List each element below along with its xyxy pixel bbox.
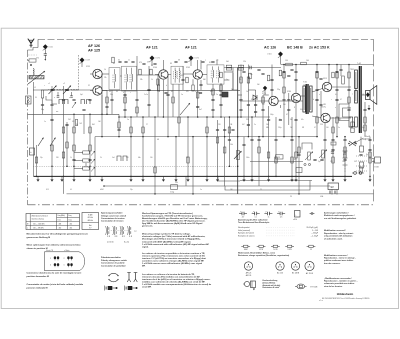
svg-text:S12: S12: [210, 91, 213, 93]
ground h9: [294, 176, 297, 181]
switch contact arrow b: [91, 159, 95, 164]
svg-text:20p: 20p: [110, 94, 113, 96]
ground speaker return: [367, 105, 370, 110]
switch contact pair D: [87, 100, 91, 105]
polarity arcs symbol: [108, 273, 118, 281]
variable capacitor CA: [49, 86, 57, 95]
svg-text:1n: 1n: [44, 121, 46, 123]
svg-text:medidas con voltimetro de: medidas con voltimetro de valvulas (AL/D…: [142, 280, 206, 283]
oscillator coil box S2: [122, 66, 137, 91]
wire v8: [94, 137, 96, 177]
table IF frequencies T2: [82, 213, 99, 230]
svg-text:510 — 1620 kHz: 510 — 1620 kHz: [33, 223, 45, 225]
wire v53: [316, 65, 318, 137]
svg-text:33k: 33k: [251, 99, 254, 101]
coupling capacitor C2: [44, 54, 47, 55]
wire v18: [154, 117, 156, 194]
wire v13: [124, 90, 126, 117]
wire v15: [136, 56, 138, 117]
svg-text:1k: 1k: [70, 157, 72, 159]
svg-text:tion des sources.: tion des sources.: [324, 262, 341, 265]
svg-text:468: 468: [59, 223, 62, 225]
wire ground bus (bold): [34, 175, 353, 177]
wire v40: [251, 117, 253, 176]
volume potentiometer: [237, 151, 240, 160]
svg-text:5n: 5n: [338, 127, 340, 129]
transistor V6 BC148B driver: [291, 93, 300, 102]
capacitor c19: [247, 124, 250, 125]
svg-text:S10: S10: [181, 75, 184, 77]
wire gang link horizontal (dashed): [48, 89, 79, 91]
svg-text:1k2: 1k2: [80, 123, 83, 125]
ground g1: [36, 176, 39, 181]
wire v52: [298, 137, 300, 194]
svg-text:68: 68: [157, 139, 159, 141]
svg-text:Anderungen vorbehalten !: Anderungen vorbehalten !: [324, 211, 349, 214]
svg-text:tensions C.C.(a0.75%) au tr: tensions C.C.(a0.75%) au transistor racc…: [142, 257, 206, 260]
measuring point M5: [278, 52, 283, 58]
svg-text:b: b: [123, 92, 124, 94]
pinout circle AC153K: [305, 261, 314, 274]
capacitor c18: [239, 99, 242, 100]
resistor r43: [118, 122, 120, 128]
svg-text:S12: S12: [209, 62, 212, 64]
ground h4: [162, 176, 165, 181]
svg-text:Measuring voltage symbol is: Measuring voltage symbol is TR battery v…: [142, 233, 191, 236]
extra capacitors set: [41, 69, 372, 155]
svg-text:Les valeurs de tension res: Les valeurs de tension respectibles a la…: [142, 252, 205, 255]
svg-text:2: 2: [64, 258, 65, 260]
svg-text:cion de las fuentes.: cion de las fuentes.: [324, 285, 343, 288]
transistor V5 AC126 AF preamp: [269, 96, 278, 105]
svg-text:4n7: 4n7: [199, 109, 202, 111]
svg-text:Spg 948 Hz auf Aussenantenn: Spg 948 Hz auf Aussenantenne (ApM) 60mA …: [142, 222, 203, 225]
svg-text:1n: 1n: [268, 216, 270, 218]
resistor R30 supply: [286, 63, 293, 66]
svg-text:electronic voltages (no.7 kH: electronic voltages (no.7 kHz) measured …: [142, 235, 206, 238]
wire rail y180 (right): [240, 180, 312, 182]
svg-text:Freq.: Freq.: [68, 215, 72, 217]
svg-text:100μ: 100μ: [362, 139, 366, 141]
svg-text:2μ2: 2μ2: [318, 161, 321, 163]
svg-text:DCvoltages (1x0.75%) at tra: DCvoltages (1x0.75%) at transistor relat…: [142, 238, 201, 241]
svg-text:Nennkapazitat: Nennkapazitat: [238, 226, 250, 229]
wire v3: [51, 86, 53, 176]
wire v19: [157, 74, 159, 90]
svg-text:e: e: [335, 107, 336, 109]
ground h2: [88, 176, 91, 181]
svg-text:25: 25: [260, 189, 262, 191]
output transformer T4: [349, 62, 361, 133]
wire v21: [167, 74, 169, 137]
svg-text:5k6: 5k6: [257, 84, 260, 86]
svg-text:U 201: U 201: [267, 54, 271, 56]
svg-text:o: o: [69, 97, 70, 99]
capacitor c12: [123, 94, 126, 95]
svg-text:posicion indicada M: posicion indicada M: [27, 287, 48, 289]
headphone switch X1: [348, 141, 357, 146]
resistor column R10: [83, 151, 90, 154]
svg-text:100: 100: [306, 60, 309, 62]
svg-text:1: 1: [64, 265, 65, 267]
svg-text:25μ: 25μ: [130, 189, 133, 191]
arrow ferrite tuning: [28, 71, 45, 84]
wire tone line: [250, 161, 303, 163]
svg-text:publiee seulement avec indi: publiee seulement avec indica-: [324, 259, 354, 262]
svg-text:50k: 50k: [175, 182, 178, 184]
svg-text:Widerstande, Bruchteil(1) 1: Widerstande, Bruchteil(1) 1 Belast., wen…: [238, 251, 276, 254]
svg-text:2k: 2k: [100, 157, 102, 159]
band switch arrow S1b: [50, 138, 56, 147]
ground g2: [50, 176, 53, 181]
resistor R31 supply: [301, 62, 307, 65]
ground g11: [368, 176, 371, 181]
trimmer C4: [70, 96, 73, 97]
svg-text:1n: 1n: [127, 119, 129, 121]
svg-text:Wave splints (pan from all: Wave splints (pan from allantry side) me…: [27, 243, 82, 246]
resistor r36: [316, 117, 318, 123]
svg-text:Voltage conversion switch: Voltage conversion switch: [101, 214, 127, 217]
extra value labels: [35, 74, 368, 198]
svg-text:Commutateur de tension: Commutateur de tension: [101, 217, 125, 220]
resistor R40: [157, 85, 159, 91]
svg-text:5—10F: 5—10F: [312, 230, 319, 232]
stepped wire: [46, 96, 57, 104]
variable capacitor CB: [63, 86, 71, 95]
svg-text:L1: L1: [34, 87, 36, 89]
svg-text:6k8: 6k8: [203, 79, 206, 81]
switch contact pair B: [65, 100, 69, 105]
resistor column R11: [83, 159, 90, 162]
wire M3 stem: [151, 61, 153, 67]
svg-text:gemessen.: gemessen.: [142, 226, 153, 228]
svg-text:only permitted with indicat: only permitted with indication: [324, 235, 353, 238]
resistor r27: [178, 117, 180, 123]
wire v50: [295, 65, 297, 94]
battery polarity glyph 1: [105, 286, 118, 291]
switch contact arrow a: [91, 151, 95, 156]
wire AGC rail y90: [102, 89, 240, 91]
trimmer tool glyph: [295, 284, 307, 289]
svg-text:1/8 W: 1/8 W: [288, 249, 293, 251]
svg-text:AF 121: AF 121: [146, 46, 158, 50]
svg-text:f min: f min: [58, 220, 61, 222]
svg-text:4μ7: 4μ7: [362, 127, 365, 129]
svg-text:2k2: 2k2: [68, 119, 71, 121]
wire v51: [295, 103, 297, 177]
svg-text:tone: tone: [343, 153, 346, 156]
wire rail y136: [95, 136, 318, 138]
wire detector rail: [224, 67, 281, 69]
wire bus y117: [119, 116, 270, 118]
svg-text:1k: 1k: [104, 69, 106, 71]
svg-text:22k: 22k: [104, 77, 107, 79]
svg-text:MF.: MF.: [142, 266, 146, 268]
svg-text:330: 330: [186, 157, 189, 159]
wire v11: [111, 90, 113, 114]
capacitor C47 det: [250, 66, 251, 69]
tone contact circle 2: [308, 163, 310, 165]
svg-text:0.1: 0.1: [339, 119, 341, 121]
connector socket: [26, 96, 32, 104]
wire v47: [283, 65, 285, 137]
upper band capacitors: [118, 61, 214, 64]
svg-text:Commutateur de polarite: Commutateur de polarite: [101, 262, 126, 265]
wire e1: [158, 79, 160, 85]
wire v54: [320, 91, 322, 113]
resistor R2: [41, 90, 43, 98]
wire v5: [66, 122, 68, 166]
wire v33: [220, 83, 222, 117]
svg-text:Polarity changeover switch: Polarity changeover switch: [101, 259, 128, 262]
svg-text:AC 153 K: AC 153 K: [306, 272, 314, 275]
svg-text:[ 4 mm: [ 4 mm: [107, 242, 114, 244]
svg-text:9V: 9V: [331, 185, 334, 189]
wire v42: [258, 137, 260, 186]
wire v39: [247, 65, 249, 137]
wire pot drop: [185, 176, 187, 186]
wire v36: [232, 68, 234, 91]
svg-text:1k8: 1k8: [98, 121, 101, 123]
svg-text:1k: 1k: [151, 79, 153, 81]
wire boundary corner: [37, 39, 39, 47]
capacitor c17: [219, 94, 222, 95]
svg-text:12k: 12k: [216, 60, 219, 62]
svg-text:452: 452: [70, 228, 73, 230]
jack box small: [296, 168, 302, 173]
capacitor c15: [196, 106, 199, 107]
pinout circle AC126: [276, 262, 284, 275]
svg-text:solamente permitida con ind: solamente permitida con indica-: [324, 282, 355, 285]
svg-text:27: 27: [146, 124, 148, 126]
svg-text:V160: V160: [153, 67, 157, 69]
wire antenna input stem: [44, 49, 46, 53]
schematic boundary right (dashed): [373, 39, 375, 203]
wire AM bus y114: [28, 113, 120, 115]
svg-text:U 170: U 170: [156, 58, 160, 60]
resistor r23: [130, 127, 132, 133]
contact bank (dashed): [356, 155, 367, 157]
schematic boundary top (dashed): [38, 38, 374, 40]
capacitor c20: [254, 104, 257, 105]
switch contact pair C: [81, 100, 85, 105]
capacitor c30: [331, 149, 334, 150]
resistor R33 det: [226, 65, 232, 67]
tone pot 2: [322, 150, 325, 158]
resistor r38: [336, 117, 338, 123]
ground g10: [323, 176, 326, 181]
svg-text:Valor (nominal): Valor (nominal): [238, 230, 250, 232]
resistor R14: [75, 120, 77, 126]
capacitor C45: [164, 92, 167, 93]
svg-text:25μ: 25μ: [350, 127, 353, 129]
resistor r26: [172, 97, 174, 103]
transistor V1 AF126 RF amp: [93, 69, 102, 78]
capacitor c13: [147, 89, 150, 90]
ground h7: [242, 176, 245, 181]
svg-text:6+4 ]: 6+4 ]: [124, 242, 129, 244]
ground h10: [331, 176, 334, 181]
stub r10: [74, 152, 83, 154]
measuring point M4: [188, 56, 193, 62]
svg-text:150: 150: [330, 161, 333, 163]
svg-text:1 mV/1kHz medido con acompa: 1 mV/1kHz medido con acompanamiento (AL/…: [142, 283, 212, 286]
svg-text:nur mit Suchtmengeles gedac: nur mit Suchtmengeles gedachtet: [324, 217, 356, 220]
external speaker jack: [375, 157, 381, 163]
svg-text:68k: 68k: [266, 127, 269, 129]
wire tuning line: [33, 89, 93, 91]
resistor r29: [206, 127, 208, 133]
svg-text:100n: 100n: [246, 157, 250, 159]
ground g4: [100, 176, 103, 181]
voltage switch symbol 2: [113, 226, 118, 237]
wire v7: [89, 114, 91, 176]
svg-text:—200μF: —200μF: [311, 233, 319, 235]
svg-text:5k6: 5k6: [226, 61, 229, 63]
svg-text:39-51μF (μμF): 39-51μF (μμF): [306, 227, 318, 229]
tone pot 1: [308, 152, 311, 160]
svg-text:T: T: [352, 94, 353, 96]
svg-text:1: 1: [50, 258, 51, 260]
svg-text:AF 121: AF 121: [185, 46, 197, 50]
stub r12: [74, 168, 83, 170]
band switch arrow S1a: [38, 138, 44, 147]
capacitor c26: [347, 89, 350, 90]
IF transformer T2: [207, 65, 224, 84]
svg-text:shown in position M: shown in position M: [27, 247, 48, 250]
resistor r37: [332, 127, 334, 133]
svg-text:tensions ayant (no.7%) a t: tensions ayant (no.7%) a transistors ave…: [142, 254, 206, 257]
svg-text:senal MF.: senal MF.: [142, 287, 152, 289]
wire v10: [106, 90, 108, 114]
transistor V7 AC153K output upper: [322, 82, 331, 91]
svg-text:1k: 1k: [128, 60, 130, 62]
electrolytic C40: [360, 146, 364, 152]
svg-text:Resistentes de cinta: Resistentes de cinta: [263, 286, 279, 289]
svg-text:460: 460: [59, 228, 62, 230]
wire v57: [332, 117, 334, 176]
svg-text:V319: V319: [323, 78, 327, 80]
wire v26: [187, 117, 189, 176]
svg-text:Hildesheim: Hildesheim: [337, 292, 354, 296]
elco symbol row1: [295, 211, 301, 218]
svg-text:S15: S15: [46, 189, 49, 191]
svg-text:Tr 62: Tr 62: [357, 62, 361, 65]
wire v62: [360, 137, 362, 144]
transistor pinout box: [44, 249, 84, 271]
ferrite rod antenna coil: [29, 69, 44, 79]
svg-text:2n: 2n: [144, 94, 146, 96]
svg-text:Conmutador de ondas (visto: Conmutador de ondas (visto del lado sold…: [27, 283, 84, 286]
ground g7: [216, 176, 219, 181]
svg-text:S9: S9: [171, 91, 173, 93]
svg-text:5: 5: [50, 265, 51, 267]
svg-text:U 139: U 139: [86, 60, 90, 62]
wire v14: [130, 117, 132, 176]
electrolytic C5: [30, 148, 35, 155]
capacitor c22: [287, 99, 290, 100]
svg-text:1/4 W: 1/4 W: [273, 249, 278, 251]
upper band labels: [118, 60, 219, 64]
svg-text:5k log: 5k log: [170, 192, 174, 194]
wire v25: [182, 66, 184, 90]
wire v55: [324, 123, 326, 177]
capacitor c28: [50, 119, 53, 120]
measuring point M2: [79, 58, 84, 64]
svg-text:Reproduccion - tambien en p: Reproduccion - tambien en partes -: [324, 280, 358, 283]
battery polarity glyph 2: [125, 286, 138, 291]
svg-text:Messbereiche (nur fur Umsch: Messbereiche (nur fur Umschaltgerate gee…: [27, 233, 89, 236]
wire corner to left border: [28, 48, 39, 51]
tone network caps: [313, 159, 316, 160]
svg-text:Tenn Einheitswert New Elect: Tenn Einheitswert New Electrolytic: [238, 221, 269, 224]
svg-text:den Vor-Bereichsweiter (AL/N: den Vor-Bereichsweiter (AL/NORM.) ohne H…: [142, 220, 206, 223]
voltage switch symbol 4: [127, 226, 132, 237]
svg-text:hochohmmessungen, 1%/1GHz au: hochohmmessungen, 1%/1GHz auf HF-Generat…: [142, 214, 203, 217]
wire v16: [142, 117, 144, 176]
wire v34: [224, 117, 226, 186]
svg-text:TR62: TR62: [350, 69, 354, 71]
electrolytic C48: [222, 92, 228, 97]
wire AGC line (dotted): [34, 165, 239, 167]
wire v30: [206, 117, 208, 176]
resistor r22: [89, 127, 91, 133]
svg-text:160: 160: [230, 189, 233, 191]
svg-text:V180: V180: [287, 91, 291, 93]
svg-text:560: 560: [283, 104, 286, 106]
svg-text:0.5: 0.5: [335, 94, 337, 96]
svg-text:0.1: 0.1: [70, 189, 72, 191]
svg-text:S2: S2: [113, 63, 115, 65]
svg-text:9 V: 9 V: [89, 228, 91, 230]
svg-text:B 584: B 584: [375, 167, 379, 169]
svg-text:V2: V2: [88, 85, 90, 87]
svg-text:U 175: U 175: [195, 58, 199, 60]
transistor V2 AF125 mixer: [93, 86, 102, 95]
svg-text:signal.: signal.: [142, 246, 149, 248]
svg-text:S9: S9: [170, 63, 172, 65]
wire v28: [197, 80, 199, 117]
wire v45: [271, 65, 273, 98]
switch contact pair A: [59, 100, 63, 105]
svg-text:68n: 68n: [138, 157, 141, 159]
resistor r39: [344, 147, 346, 153]
transistor V8 AC153K output lower: [321, 113, 330, 122]
svg-text:S3: S3: [109, 91, 111, 93]
svg-text:12k: 12k: [243, 61, 246, 63]
driver transformer T3: [303, 81, 312, 115]
wire step-down 1: [218, 176, 240, 181]
svg-text:c2: c2: [63, 83, 65, 85]
capacitor c23: [294, 79, 297, 80]
wire v38: [243, 137, 245, 177]
svg-text:22n: 22n: [280, 216, 283, 218]
wire v22: [172, 84, 174, 117]
svg-text:Ejemplos del valenti: Ejemplos del valenti: [238, 232, 255, 235]
wire v44: [268, 106, 270, 176]
wire v20: [162, 80, 164, 117]
wire v2: [36, 151, 38, 176]
wire v41: [255, 90, 257, 117]
svg-text:25μ: 25μ: [40, 157, 43, 159]
svg-text:0R5: 0R5: [323, 104, 326, 106]
wire M4 stem: [190, 61, 192, 67]
resistor column R12: [83, 167, 90, 170]
svg-text:47: 47: [314, 127, 316, 129]
svg-text:V175: V175: [262, 93, 266, 95]
resistor r44: [106, 97, 108, 103]
callout arrow: [354, 138, 364, 143]
